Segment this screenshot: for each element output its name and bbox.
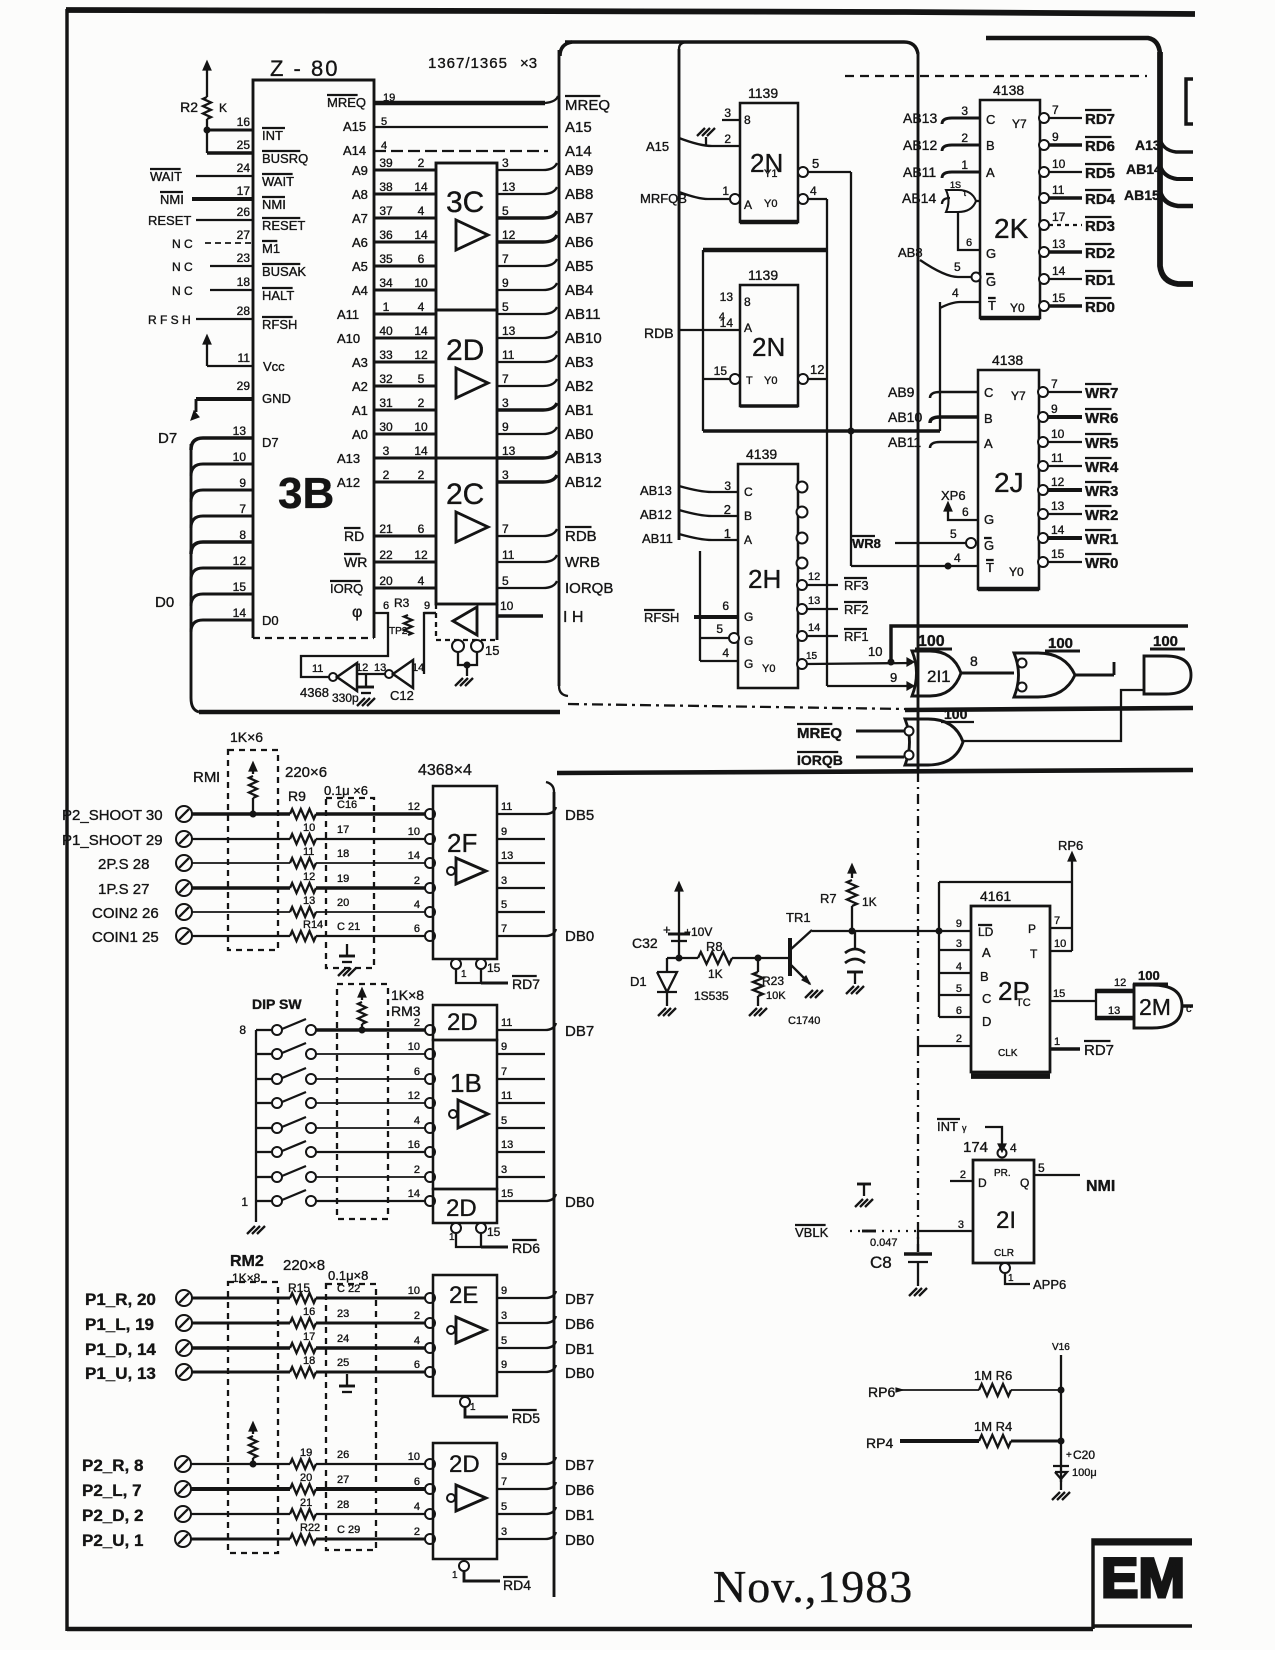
svg-text:AB6: AB6 — [565, 234, 593, 251]
wire input row P1_U — [192, 1371, 290, 1374]
svg-text:G: G — [986, 246, 996, 261]
svg-text:AB11: AB11 — [888, 434, 921, 450]
svg-text:AB0: AB0 — [565, 426, 593, 443]
buffer symbol U2F — [447, 867, 455, 875]
svg-text:4: 4 — [418, 574, 425, 588]
svg-text:14: 14 — [808, 622, 820, 634]
svg-text:G: G — [744, 634, 753, 648]
svg-text:C16: C16 — [337, 799, 357, 811]
pin 9 output of U1B — [497, 1053, 545, 1055]
svg-text:4139: 4139 — [746, 446, 777, 462]
bus vertical x679 — [679, 42, 688, 49]
svg-text:P1_SHOOT 29: P1_SHOOT 29 — [62, 832, 163, 849]
svg-text:AB9: AB9 — [565, 162, 593, 179]
wire IORQB to gate — [856, 756, 904, 759]
svg-text:19: 19 — [337, 873, 349, 885]
wire between inverters — [357, 673, 385, 675]
pin 11 output of U1B — [497, 1102, 545, 1104]
resistor R2 — [206, 63, 208, 77]
wire AB13 to U2K — [942, 118, 980, 124]
pin 14 RD1 out of U2K — [1039, 274, 1049, 284]
logo EM box — [1093, 1540, 1192, 1629]
svg-text:5: 5 — [501, 899, 507, 911]
svg-text:22: 22 — [379, 548, 393, 562]
svg-text:D: D — [978, 1176, 987, 1190]
svg-text:N C: N C — [172, 260, 193, 274]
svg-text:PR.: PR. — [994, 1168, 1011, 1179]
svg-text:4: 4 — [414, 1115, 420, 1127]
svg-text:9: 9 — [890, 670, 897, 685]
svg-text:16: 16 — [237, 115, 251, 129]
svg-text:3C: 3C — [446, 186, 484, 219]
switch DIP row 6 — [256, 1151, 272, 1153]
IC U2J 1138 outline — [978, 370, 1039, 589]
pin 13 RF2 out of U2H — [797, 604, 807, 614]
pin 9 output of U2E — [497, 1371, 545, 1373]
bus DB right rail — [553, 792, 556, 1597]
svg-text:AB4: AB4 — [565, 282, 593, 299]
border frame bottom — [67, 1627, 1093, 1632]
svg-text:BUSRQ: BUSRQ — [262, 151, 308, 166]
svg-text:6: 6 — [418, 252, 425, 266]
wire long y712 left solid — [199, 710, 560, 715]
svg-text:14: 14 — [408, 850, 420, 862]
pin 7 RD7 out of U2K — [1039, 113, 1049, 123]
pin 9 output of U2D — [497, 1463, 545, 1465]
svg-text:13: 13 — [501, 1139, 513, 1151]
wire CLK pin2 — [918, 1045, 971, 1047]
svg-text:RD3: RD3 — [1085, 218, 1115, 235]
svg-text:10: 10 — [868, 644, 882, 659]
svg-text:100: 100 — [1138, 968, 1160, 983]
svg-text:7: 7 — [1051, 377, 1058, 391]
wire top rail y42 — [565, 42, 918, 54]
wire input row P2_D — [191, 1513, 290, 1515]
svg-text:DB6: DB6 — [565, 1482, 594, 1499]
svg-text:10: 10 — [408, 826, 420, 838]
svg-text:RD7: RD7 — [1084, 1042, 1114, 1059]
svg-text:RP4: RP4 — [866, 1435, 893, 1451]
svg-text:1: 1 — [383, 300, 390, 314]
resistor RM3 pullup — [361, 990, 363, 1000]
svg-text:3: 3 — [501, 1310, 507, 1322]
svg-text:A15: A15 — [343, 119, 366, 134]
wire R2 to INT — [206, 119, 208, 153]
svg-text:5: 5 — [950, 527, 957, 541]
svg-text:20: 20 — [300, 1472, 312, 1484]
pin 6 input of U2E — [425, 1367, 435, 1377]
pin 6 input of U2F — [425, 931, 435, 941]
svg-text:RESET: RESET — [148, 213, 191, 228]
svg-text:15: 15 — [714, 364, 728, 378]
svg-text:8: 8 — [970, 653, 978, 669]
svg-text:1: 1 — [241, 1195, 248, 1209]
svg-text:10: 10 — [408, 1041, 420, 1053]
IC U1B column top 2D cell — [433, 1005, 497, 1040]
IC U2K 1138 outline — [980, 100, 1040, 318]
svg-text:7: 7 — [1054, 915, 1060, 927]
svg-text:2C: 2C — [446, 478, 484, 511]
svg-text:5: 5 — [1038, 1161, 1045, 1175]
svg-text:21: 21 — [379, 522, 393, 536]
svg-text:C: C — [982, 991, 991, 1006]
svg-text:A1: A1 — [352, 403, 368, 418]
svg-text:A5: A5 — [352, 259, 368, 274]
svg-text:WR7: WR7 — [1085, 385, 1118, 402]
svg-text:WR3: WR3 — [1085, 483, 1118, 500]
bus vertical x918 — [917, 54, 920, 772]
svg-text:A13: A13 — [1135, 137, 1161, 153]
svg-text:100: 100 — [918, 633, 945, 650]
svg-text:23: 23 — [337, 1308, 349, 1320]
svg-text:100μ: 100μ — [1072, 1467, 1097, 1479]
wire AB11 to U2K — [942, 172, 980, 178]
svg-text:7: 7 — [501, 1476, 507, 1488]
pin 15 Y0 out of U2H — [797, 659, 807, 669]
svg-text:9: 9 — [956, 918, 962, 930]
ground DIP rail — [247, 1226, 255, 1234]
svg-text:1: 1 — [961, 158, 968, 172]
svg-text:P2_L, 7: P2_L, 7 — [82, 1481, 142, 1500]
wire INTR to preset — [985, 1127, 1002, 1148]
svg-text:12: 12 — [408, 1090, 420, 1102]
bus data D7-D0 left rail — [191, 444, 199, 712]
svg-text:6: 6 — [956, 1005, 962, 1017]
svg-text:13: 13 — [1108, 1005, 1120, 1017]
svg-text:Z - 80: Z - 80 — [270, 56, 339, 81]
wire data bit pin 10 — [191, 464, 253, 476]
svg-text:17: 17 — [303, 1331, 315, 1343]
svg-text:A4: A4 — [352, 283, 368, 298]
svg-text:D7: D7 — [262, 435, 279, 450]
wire RP6 row — [900, 1389, 979, 1391]
svg-text:3: 3 — [383, 444, 390, 458]
buffer symbol U2C — [456, 512, 488, 542]
wire phi to chain — [301, 613, 388, 677]
pin 7 output of U2F — [497, 935, 545, 937]
svg-text:27: 27 — [237, 228, 251, 242]
wire DB6 hook 2E — [545, 1316, 556, 1323]
pin 7 output of U1B — [497, 1078, 545, 1080]
svg-text:TC: TC — [1016, 997, 1031, 1009]
wire DB7 hook 2D — [545, 1457, 556, 1464]
wire second gate output — [1075, 674, 1114, 677]
wire AB11 to U2J — [930, 442, 978, 448]
pin 2 input of U2E — [425, 1318, 435, 1328]
wire data bit pin 14 — [191, 620, 253, 632]
wire buffer out to bus AB4 — [497, 283, 557, 290]
svg-text:G: G — [744, 610, 753, 624]
svg-text:16: 16 — [303, 1306, 315, 1318]
wire A3 to buffer — [374, 361, 436, 364]
svg-text:4: 4 — [414, 1501, 420, 1513]
pin 12 input of U1B — [425, 1098, 435, 1108]
IC U1B column bottom 2D cell — [433, 1189, 497, 1223]
svg-text:D0: D0 — [262, 613, 279, 628]
bus dashed to 2I — [917, 1046, 919, 1252]
IC U2H 1139 outline — [738, 464, 798, 688]
svg-text:R2: R2 — [180, 99, 198, 115]
wire input row COIN2 — [192, 911, 290, 913]
svg-text:RFSH: RFSH — [262, 317, 297, 332]
svg-text:AB7: AB7 — [565, 210, 593, 227]
ground at U2N-1 pin2 — [697, 128, 705, 136]
svg-text:AB8: AB8 — [565, 186, 593, 203]
gate U2M input box — [1096, 990, 1134, 1019]
svg-text:DIP SW: DIP SW — [252, 996, 302, 1012]
svg-text:DB0: DB0 — [565, 1194, 594, 1211]
svg-text:11: 11 — [502, 548, 515, 562]
svg-text:15: 15 — [1053, 988, 1065, 1000]
wire R8 to base — [732, 957, 788, 959]
resistor RM1 pullup — [252, 764, 254, 774]
svg-text:11: 11 — [501, 801, 512, 813]
svg-text:5: 5 — [812, 156, 819, 171]
svg-text:11: 11 — [312, 663, 323, 675]
gate small at AB14 input — [942, 198, 950, 204]
pin 4 input of U2E — [425, 1343, 435, 1353]
svg-text:25: 25 — [237, 138, 251, 152]
wire input row COIN1 — [192, 935, 290, 937]
pin 17 RD3 out of U2K — [1039, 220, 1049, 230]
svg-text:DB7: DB7 — [565, 1023, 594, 1040]
svg-text:18: 18 — [237, 275, 251, 289]
svg-text:EM: EM — [1101, 1546, 1185, 1609]
svg-text:12: 12 — [303, 871, 315, 883]
wire input row P2_U — [191, 1538, 290, 1541]
svg-text:24: 24 — [237, 161, 251, 175]
svg-text:A14: A14 — [343, 143, 366, 158]
wire RFSH — [196, 318, 253, 320]
svg-text:9: 9 — [502, 420, 509, 434]
svg-text:2D: 2D — [447, 1009, 478, 1036]
resistor network RM3 box — [337, 984, 388, 1219]
wire buffer out to bus AB6 — [497, 235, 557, 242]
pin 2 input of U1B — [425, 1172, 435, 1182]
border frame top — [66, 10, 1195, 14]
svg-text:WRB: WRB — [565, 554, 600, 571]
wire A0 to buffer — [374, 433, 436, 436]
wire input row P2_L — [191, 1487, 290, 1491]
svg-text:RESET: RESET — [262, 218, 305, 233]
wire long y709 solid right — [905, 708, 1193, 710]
svg-text:4: 4 — [719, 311, 725, 323]
svg-text:R F S H: R F S H — [148, 313, 191, 327]
svg-text:COIN1 25: COIN1 25 — [92, 929, 159, 946]
svg-text:A: A — [986, 165, 995, 180]
wire DB1 hook 2E — [545, 1341, 556, 1348]
wire A14 — [374, 150, 548, 152]
resistor R9 series — [290, 809, 316, 819]
svg-text:6: 6 — [414, 923, 420, 935]
svg-text:RD4: RD4 — [1085, 191, 1116, 208]
svg-text:28: 28 — [337, 1499, 349, 1511]
svg-text:DB0: DB0 — [565, 928, 594, 945]
svg-text:10: 10 — [414, 276, 428, 290]
svg-text:3: 3 — [501, 875, 507, 887]
svg-text:A: A — [744, 198, 752, 212]
wire DB7 hook 2E — [545, 1291, 556, 1298]
wire INT — [207, 129, 253, 132]
svg-text:16: 16 — [408, 1139, 420, 1151]
svg-text:MRFQB: MRFQB — [640, 191, 687, 206]
svg-text:RD6: RD6 — [512, 1240, 540, 1256]
wire AB14 gate to G pin — [958, 212, 980, 250]
svg-text:P1_L, 19: P1_L, 19 — [85, 1315, 154, 1334]
IC U2N-2 1139 outline — [740, 285, 798, 406]
pin 2 input of U2D — [425, 1534, 435, 1544]
svg-text:WR5: WR5 — [1085, 435, 1118, 452]
svg-text:RM2: RM2 — [230, 1253, 264, 1270]
svg-text:14: 14 — [408, 1188, 420, 1200]
svg-text:11: 11 — [1052, 183, 1065, 197]
wire feedback top y626 — [891, 626, 1188, 662]
svg-text:12: 12 — [414, 348, 428, 362]
svg-text:R14: R14 — [303, 919, 323, 931]
svg-text:1: 1 — [1054, 1036, 1060, 1048]
wire NMI — [192, 197, 253, 201]
svg-text:A: A — [744, 533, 752, 547]
wire buffer out to bus AB8 — [497, 187, 557, 194]
svg-text:AB15: AB15 — [1124, 187, 1160, 203]
pin bubbles below U1B — [451, 1223, 461, 1233]
wire AB12 to U2K — [942, 145, 980, 151]
svg-text:39: 39 — [379, 156, 393, 170]
svg-text:10: 10 — [408, 1285, 420, 1297]
buffer symbol U2D — [456, 368, 488, 398]
wire gate input 9 — [827, 685, 914, 687]
wire buffer out to bus AB0 — [497, 427, 557, 434]
wire DB0 hook 1B — [545, 1194, 556, 1201]
svg-text:1: 1 — [449, 1232, 455, 1243]
svg-text:1: 1 — [722, 184, 729, 198]
bus AB right vertical — [1160, 52, 1193, 284]
svg-text:K: K — [219, 101, 227, 115]
wire data bit pin 13 — [191, 438, 253, 450]
pin 10 RD5 out of U2K — [1039, 167, 1049, 177]
svg-text:6: 6 — [966, 237, 972, 249]
svg-text:330p: 330p — [332, 691, 359, 705]
svg-text:Y0: Y0 — [762, 663, 775, 675]
svg-text:220×6: 220×6 — [285, 764, 327, 781]
wire collector to 2P — [812, 930, 971, 932]
svg-text:26: 26 — [337, 1449, 349, 1461]
svg-text:11: 11 — [1051, 451, 1064, 465]
svg-text:RD7: RD7 — [512, 976, 540, 992]
svg-text:COIN2 26: COIN2 26 — [92, 905, 159, 922]
svg-text:33: 33 — [379, 348, 393, 362]
svg-text:1S: 1S — [950, 180, 961, 190]
svg-text:220×8: 220×8 — [283, 1257, 325, 1274]
svg-text:2: 2 — [414, 1310, 420, 1322]
svg-text:25: 25 — [337, 1357, 349, 1369]
svg-text:AB11: AB11 — [903, 164, 936, 180]
svg-text:Y0: Y0 — [1010, 301, 1025, 315]
svg-text:2P.S 28: 2P.S 28 — [98, 856, 149, 873]
svg-text:NMI: NMI — [262, 197, 286, 212]
svg-text:AB12: AB12 — [903, 137, 937, 153]
svg-text:RP6: RP6 — [868, 1384, 895, 1400]
wire VBLK dash — [850, 1230, 918, 1232]
switch DIP row 7 — [256, 1176, 272, 1178]
svg-text:RD6: RD6 — [1085, 138, 1115, 155]
pin 10 input of U2F — [425, 834, 435, 844]
svg-text:2I1: 2I1 — [927, 667, 951, 686]
svg-text:CLR: CLR — [994, 1248, 1014, 1259]
svg-text:1139: 1139 — [748, 267, 778, 283]
svg-text:A0: A0 — [352, 427, 368, 442]
svg-text:NMI: NMI — [160, 192, 184, 207]
pin 5 output of U1B — [497, 1127, 545, 1129]
svg-text:6: 6 — [722, 599, 729, 613]
pin bubbles below inverter — [452, 640, 464, 652]
svg-text:4: 4 — [414, 1335, 420, 1347]
svg-text:R9: R9 — [288, 788, 306, 804]
svg-text:12: 12 — [414, 548, 428, 562]
svg-text:13: 13 — [1052, 237, 1066, 251]
svg-text:WR0: WR0 — [1085, 555, 1118, 572]
wire MREQ to gate — [856, 730, 904, 733]
pin bubbles below U2F — [451, 959, 461, 969]
svg-text:P2_U, 1: P2_U, 1 — [82, 1531, 143, 1550]
svg-text:10: 10 — [1051, 427, 1065, 441]
svg-text:B: B — [984, 411, 993, 426]
resistor 11 series — [290, 858, 316, 868]
svg-text:15: 15 — [485, 643, 499, 658]
wire A9 to buffer — [374, 169, 436, 172]
wire top rail right y38 — [986, 38, 1160, 54]
svg-text:V16: V16 — [1052, 1342, 1070, 1353]
svg-text:A15: A15 — [565, 119, 592, 136]
resistor 10 series — [290, 834, 316, 844]
svg-text:AB9: AB9 — [888, 384, 915, 400]
wire long y771 — [557, 770, 1193, 773]
wire buffer out to bus AB1 — [497, 403, 557, 410]
svg-text:RF2: RF2 — [844, 602, 869, 617]
svg-text:10: 10 — [303, 822, 315, 834]
svg-text:8: 8 — [239, 1023, 246, 1037]
pin 15 RD0 out of U2K — [1039, 301, 1049, 311]
svg-text:3: 3 — [958, 1219, 964, 1231]
svg-text:D0: D0 — [155, 594, 174, 611]
wire AB14 to edge — [1160, 165, 1193, 179]
svg-text:11: 11 — [238, 351, 251, 365]
svg-text:C8: C8 — [870, 1253, 892, 1272]
svg-text:1: 1 — [470, 1402, 476, 1413]
pin 13 RD2 out of U2K — [1039, 247, 1049, 257]
wire WRB out — [497, 555, 557, 562]
IC U1B outline — [433, 1040, 497, 1189]
svg-text:Y7: Y7 — [1011, 389, 1026, 403]
svg-text:2J: 2J — [994, 467, 1024, 498]
svg-text:I H: I H — [563, 609, 583, 626]
svg-text:3: 3 — [502, 156, 509, 170]
svg-text:4368×4: 4368×4 — [418, 762, 472, 779]
resistor R3 vertical — [404, 615, 412, 635]
svg-text:2D: 2D — [449, 1451, 480, 1478]
svg-text:GND: GND — [262, 391, 291, 406]
svg-text:WR1: WR1 — [1085, 531, 1118, 548]
wire input row P1_SHOOT — [192, 838, 290, 840]
svg-text:6: 6 — [414, 1359, 420, 1371]
svg-text:13: 13 — [501, 850, 513, 862]
wire Y1-2N1 to U2J pin T — [851, 565, 978, 567]
IC U2P 4161 counter outline — [971, 906, 1050, 1072]
svg-text:TR1: TR1 — [786, 910, 811, 925]
switch DIP row 5 — [256, 1127, 272, 1129]
svg-text:AB12: AB12 — [640, 507, 672, 522]
pin 3 output of U1B — [497, 1176, 545, 1178]
